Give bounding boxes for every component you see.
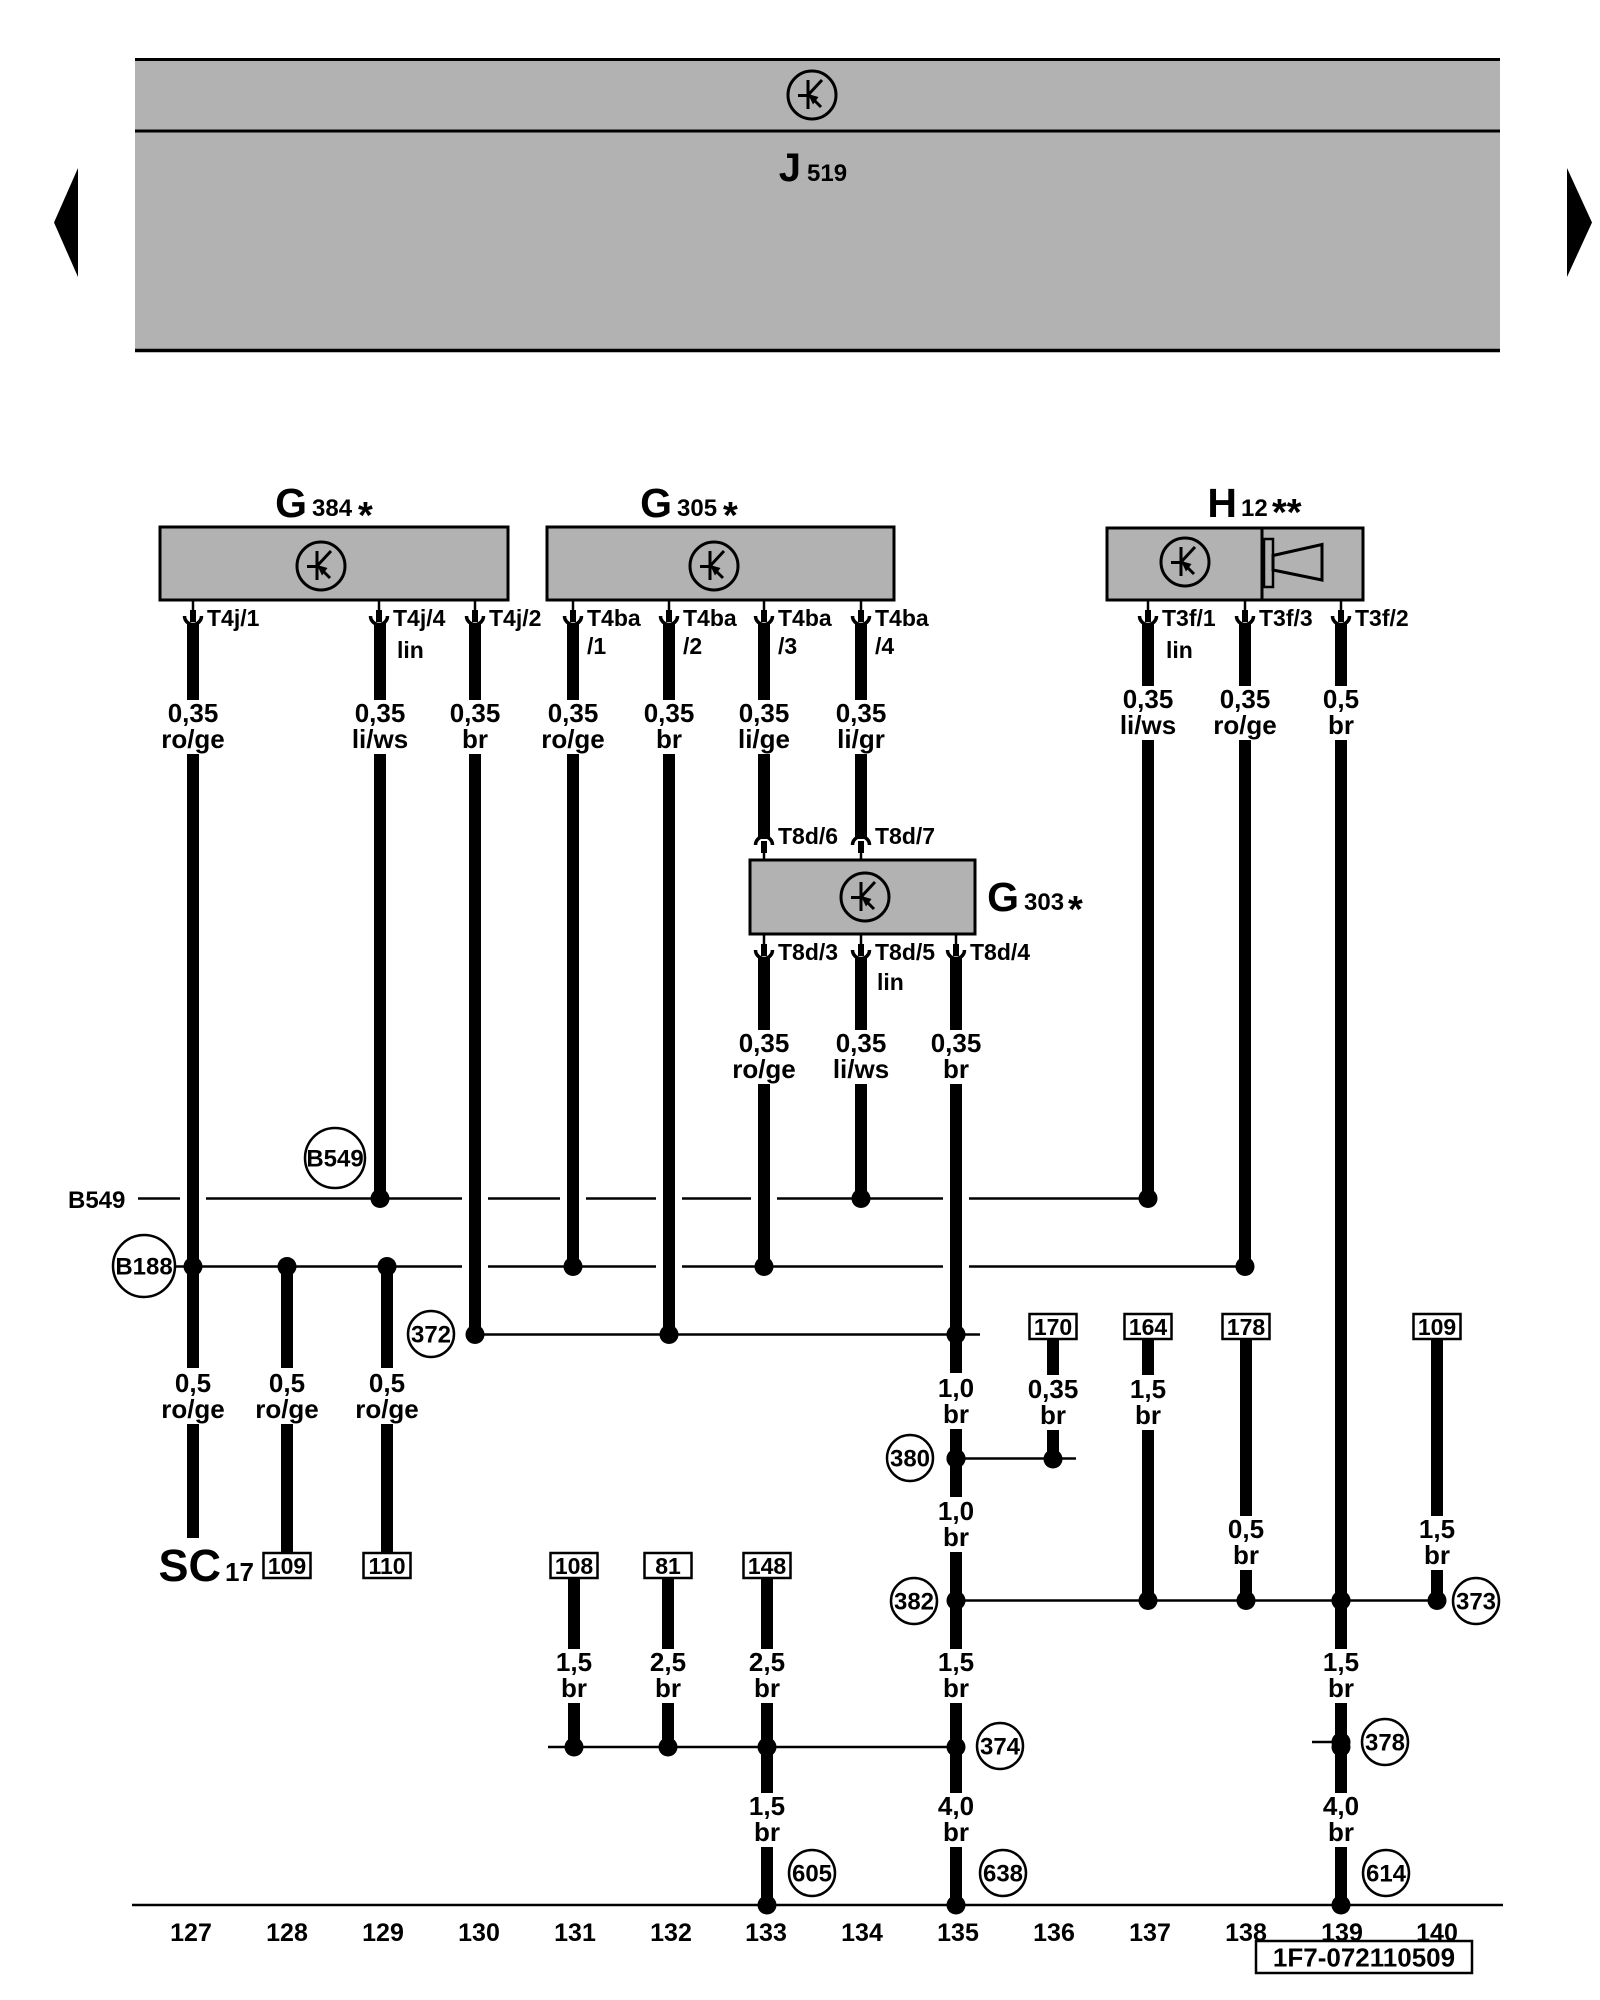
wire T3f/1 to B549 (0,35 li/ws) col137 (1120, 623, 1176, 1208)
splice 605 circle (789, 1850, 835, 1896)
wire terminal 109 to splice 382 (1,5 br) col140 (1419, 1339, 1455, 1610)
pin T8d/7 (top) (853, 823, 936, 860)
wire T4ba/2 to splice 372 (0,35 br) col132 (644, 623, 695, 1344)
svg-text:ro/ge: ro/ge (161, 724, 225, 754)
svg-text:li/ge: li/ge (738, 724, 790, 754)
K symbol in G305 (690, 542, 738, 590)
svg-text:638: 638 (983, 1861, 1023, 1888)
pin T3f/2 (1333, 600, 1409, 631)
svg-text:ro/ge: ro/ge (541, 724, 605, 754)
svg-text:ro/ge: ro/ge (161, 1394, 225, 1424)
svg-text:T4j/1: T4j/1 (207, 605, 260, 631)
part number box (1256, 1941, 1472, 1973)
H12 internal divider (1261, 528, 1264, 600)
svg-text:br: br (1328, 710, 1354, 740)
wire T8d/4 down to ground rail col135 (931, 957, 982, 1915)
svg-text:br: br (561, 1673, 587, 1703)
svg-text:li/ws: li/ws (1120, 710, 1176, 740)
svg-text:ro/ge: ro/ge (355, 1394, 419, 1424)
splice line 380 (947, 1449, 1077, 1468)
label G384* (275, 480, 373, 537)
wire T4j/2 to splice 372 (0,35 br) col130 (450, 623, 501, 1344)
svg-text:br: br (943, 1817, 969, 1847)
svg-text:T4j/2: T4j/2 (489, 605, 541, 631)
wire B188 to terminal 110 (0,5 ro/ge) col129 (355, 1257, 419, 1553)
svg-text:129: 129 (362, 1919, 404, 1947)
horn symbol in H12 (1264, 539, 1322, 587)
wire T4ba/3 to T8d/6 (0,35 li/ge) col133 (738, 623, 790, 839)
label H12 ** (1207, 480, 1301, 534)
svg-text:T8d/4: T8d/4 (970, 939, 1030, 965)
svg-text:T3f/1: T3f/1 (1162, 605, 1216, 631)
svg-text:T3f/2: T3f/2 (1355, 605, 1409, 631)
K symbol in J519 (788, 71, 836, 119)
sensor G305 box (547, 527, 894, 600)
svg-text:378: 378 (1365, 1730, 1405, 1757)
svg-text:T8d/3: T8d/3 (778, 939, 838, 965)
wire T4j/1 to B188 to SC17 (0,5 ro/ge) col127 (161, 623, 225, 1538)
label B549 left (68, 1187, 125, 1214)
terminal box 109 right (1414, 1314, 1461, 1340)
svg-text:110: 110 (368, 1553, 405, 1579)
svg-text:br: br (1328, 1817, 1354, 1847)
control unit J519 (body control module) box (135, 58, 1500, 352)
svg-text:T4ba: T4ba (778, 605, 832, 631)
svg-text:138: 138 (1225, 1919, 1267, 1947)
svg-text:br: br (1040, 1400, 1066, 1430)
svg-text:J: J (779, 146, 801, 190)
pin T4j/2 (467, 600, 542, 631)
connector B549 circle (305, 1128, 365, 1188)
svg-text:178: 178 (1227, 1314, 1266, 1340)
label J519 (779, 146, 847, 190)
svg-text:1F7-072110509: 1F7-072110509 (1273, 1943, 1455, 1973)
terminal box 109 left (264, 1553, 311, 1579)
wire T4ba/1 to B188 (0,35 ro/ge) col131 (541, 623, 605, 1276)
page arrow right (1567, 168, 1592, 277)
svg-text:614: 614 (1366, 1861, 1407, 1888)
svg-text:519: 519 (807, 160, 847, 187)
splice 378 circle (1362, 1719, 1408, 1765)
svg-text:136: 136 (1033, 1919, 1075, 1947)
wire T8d/3 to B188 (0,35 ro/ge) col133 (732, 957, 796, 1276)
terminal box 81 (645, 1553, 692, 1579)
terminal box 108 (551, 1553, 598, 1579)
svg-text:137: 137 (1129, 1919, 1171, 1947)
wire terminal 164 to splice 382 (1,5 br) col137 (1130, 1339, 1166, 1610)
svg-text:133: 133 (745, 1919, 787, 1947)
svg-text:148: 148 (748, 1553, 787, 1579)
svg-text:108: 108 (555, 1553, 594, 1579)
svg-text:B188: B188 (115, 1254, 172, 1281)
svg-text:B549: B549 (68, 1187, 125, 1214)
horn H12 box (1107, 528, 1363, 600)
splice 374 circle (977, 1723, 1023, 1769)
svg-text:134: 134 (841, 1919, 883, 1947)
svg-text:*: * (358, 495, 373, 537)
svg-text:li/ws: li/ws (352, 724, 408, 754)
wire B188 to terminal 109 (0,5 ro/ge) col128 (255, 1257, 319, 1553)
svg-text:br: br (754, 1673, 780, 1703)
svg-text:T3f/3: T3f/3 (1259, 605, 1313, 631)
svg-text:303: 303 (1024, 889, 1064, 916)
svg-text:br: br (943, 1054, 969, 1084)
pin T4ba/4 (853, 600, 929, 659)
svg-text:T8d/7: T8d/7 (875, 823, 935, 849)
terminal box 148 (744, 1553, 791, 1579)
sensor G384 box (160, 527, 508, 600)
svg-text:br: br (655, 1673, 681, 1703)
svg-text:305: 305 (677, 495, 717, 522)
svg-text:135: 135 (937, 1919, 979, 1947)
svg-text:br: br (943, 1673, 969, 1703)
sensor G303 box (750, 860, 975, 934)
splice 372 circle (408, 1311, 454, 1357)
svg-text:lin: lin (877, 969, 904, 995)
pin T8d/4 (bottom) (948, 934, 1031, 965)
svg-text:T4j/4: T4j/4 (393, 605, 446, 631)
svg-text:130: 130 (458, 1919, 500, 1947)
svg-text:T4ba: T4ba (587, 605, 641, 631)
splice 380 circle (887, 1435, 933, 1481)
svg-text:/1: /1 (587, 633, 606, 659)
wire T3f/2 down to ground rail col139 (1323, 623, 1359, 1915)
svg-text:372: 372 (411, 1322, 451, 1349)
pin T4ba/3 (756, 600, 832, 659)
svg-text:br: br (1424, 1540, 1450, 1570)
svg-text:ro/ge: ro/ge (255, 1394, 319, 1424)
label G303 * (987, 874, 1083, 931)
pin T4j/4 with lin (371, 600, 446, 663)
connector B188 circle (113, 1235, 175, 1297)
splice 382 circle (891, 1578, 937, 1624)
splice 638 circle (980, 1850, 1026, 1896)
svg-text:605: 605 (792, 1861, 832, 1888)
svg-text:*: * (723, 495, 738, 537)
svg-text:B549: B549 (306, 1146, 363, 1173)
terminal box 178 (1223, 1314, 1270, 1340)
ground/current rail (132, 1904, 1503, 1907)
svg-text:17: 17 (225, 1557, 254, 1587)
svg-text:br: br (943, 1399, 969, 1429)
svg-text:12: 12 (1241, 495, 1268, 522)
wire terminal 178 to splice 382 (0,5 br) col138 (1228, 1339, 1264, 1610)
svg-text:br: br (754, 1817, 780, 1847)
splice 373 circle (1453, 1578, 1499, 1624)
K symbol in G303 (841, 873, 889, 921)
terminal box 110 (364, 1553, 411, 1579)
svg-text:G: G (640, 480, 672, 526)
wire T4ba/4 to T8d/7 (0,35 li/gr) col134 (836, 623, 887, 839)
splice line 374 (548, 1746, 956, 1749)
wire T3f/3 to B188 (0,35 ro/ge) col138 (1213, 623, 1277, 1276)
wire terminal 81 to splice 374 (2,5 br) (650, 1578, 686, 1757)
svg-text:T8d/6: T8d/6 (778, 823, 838, 849)
svg-text:br: br (1135, 1400, 1161, 1430)
pin T4ba/1 (565, 600, 641, 659)
svg-text:T4ba: T4ba (683, 605, 737, 631)
page arrow left (54, 168, 78, 277)
svg-text:ro/ge: ro/ge (732, 1054, 796, 1084)
svg-text:T8d/5: T8d/5 (875, 939, 935, 965)
svg-text:**: ** (1272, 492, 1302, 534)
svg-text:*: * (1068, 889, 1083, 931)
svg-text:br: br (1233, 1540, 1259, 1570)
svg-text:lin: lin (1166, 637, 1193, 663)
svg-text:132: 132 (650, 1919, 692, 1947)
svg-text:SC: SC (158, 1540, 221, 1591)
splice 614 circle (1363, 1850, 1409, 1896)
svg-text:T4ba: T4ba (875, 605, 929, 631)
splice line 372 (475, 1333, 980, 1336)
svg-text:/4: /4 (875, 633, 894, 659)
track numbers (170, 1919, 1458, 1947)
terminal box 170 (1030, 1314, 1077, 1340)
node line B549 (138, 1197, 1148, 1200)
svg-text:G: G (987, 874, 1019, 920)
svg-text:li/gr: li/gr (837, 724, 885, 754)
svg-text:H: H (1207, 480, 1237, 526)
ground terminal SC17 label (158, 1540, 253, 1591)
junction dot B188 col127 (184, 1257, 203, 1276)
svg-text:br: br (656, 724, 682, 754)
svg-text:br: br (943, 1522, 969, 1552)
svg-text:373: 373 (1456, 1589, 1496, 1616)
svg-text:/2: /2 (683, 633, 702, 659)
svg-text:br: br (1328, 1673, 1354, 1703)
pin T8d/6 (top) (756, 823, 839, 860)
svg-text:380: 380 (890, 1446, 930, 1473)
splice stub 378 (1312, 1733, 1351, 1752)
svg-text:109: 109 (1418, 1314, 1456, 1340)
svg-text:128: 128 (266, 1919, 308, 1947)
svg-text:ro/ge: ro/ge (1213, 710, 1277, 740)
K symbol in G384 (297, 542, 345, 590)
svg-text:li/ws: li/ws (833, 1054, 889, 1084)
svg-text:127: 127 (170, 1919, 212, 1947)
svg-text:384: 384 (312, 495, 353, 522)
pin T3f/3 (1237, 600, 1313, 631)
svg-text:/3: /3 (778, 633, 797, 659)
wire T8d/5 to B549 (0,35 li/ws) col134 (833, 957, 889, 1208)
terminal box 164 (1125, 1314, 1172, 1340)
pin T4ba/2 (661, 600, 737, 659)
node line B188 (175, 1265, 1245, 1268)
svg-text:G: G (275, 480, 307, 526)
label G305* (640, 480, 738, 537)
svg-text:374: 374 (980, 1734, 1021, 1761)
pin T8d/5 with lin (bottom) (853, 934, 936, 995)
wire T4j/4 to B549 (0,35 li/ws) col129 (352, 623, 408, 1208)
svg-text:81: 81 (655, 1553, 681, 1579)
svg-text:131: 131 (554, 1919, 596, 1947)
svg-text:lin: lin (397, 637, 424, 663)
svg-text:164: 164 (1129, 1314, 1168, 1340)
splice line 382 (956, 1591, 1436, 1610)
svg-text:170: 170 (1034, 1314, 1072, 1340)
wire terminal 108 to splice 374 (1,5 br) (556, 1578, 592, 1757)
pin T4j/1 (185, 600, 260, 631)
K symbol in H12 (1161, 538, 1209, 586)
wire terminal 148 to ground rail (2,5 / 1,5 br) col133 (749, 1578, 785, 1915)
wire terminal 170 to splice 380 (0,35 br) col136 (1028, 1339, 1079, 1469)
svg-text:109: 109 (268, 1553, 306, 1579)
svg-text:br: br (462, 724, 488, 754)
svg-text:382: 382 (894, 1589, 934, 1616)
pin T3f/1 with lin (1140, 600, 1216, 663)
pin T8d/3 (bottom) (756, 934, 839, 965)
